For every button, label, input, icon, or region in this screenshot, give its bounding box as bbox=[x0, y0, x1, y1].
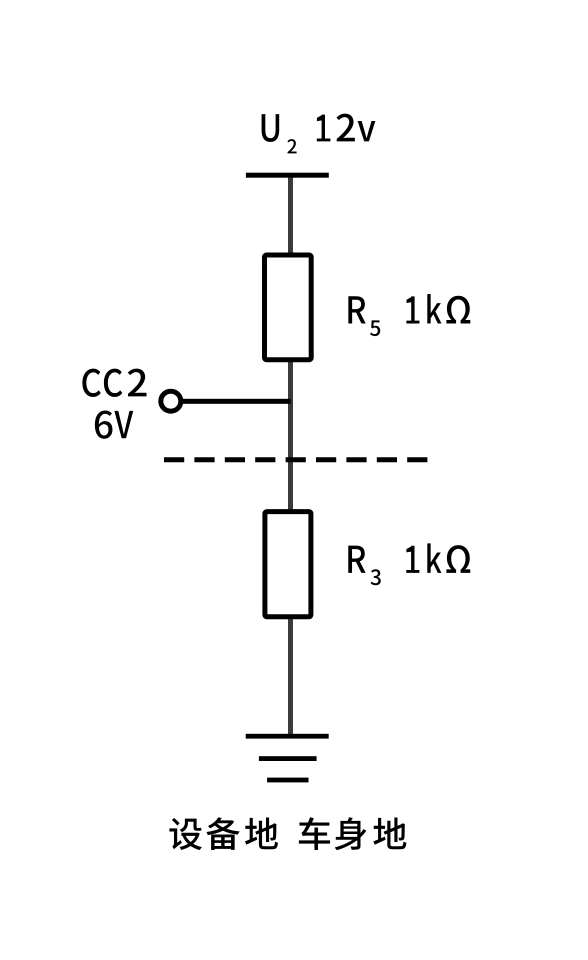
node U2 supply rail bar bbox=[246, 173, 329, 178]
resistor R5 bbox=[265, 255, 312, 360]
label CC2 bbox=[82, 369, 146, 397]
node CC2 terminal circle bbox=[161, 391, 181, 411]
resistor R3 bbox=[265, 512, 311, 617]
label U2 12v bbox=[262, 114, 376, 154]
label device-ground body-ground bbox=[169, 817, 406, 850]
label R5 1kOhm bbox=[348, 294, 470, 336]
label R3 1kOhm bbox=[348, 543, 470, 585]
dashed boundary line bbox=[164, 457, 427, 462]
label 6V bbox=[95, 410, 133, 438]
ground symbol bbox=[246, 734, 329, 783]
wire main vertical bbox=[288, 175, 293, 736]
wire CC2 node to divider bbox=[180, 399, 291, 404]
